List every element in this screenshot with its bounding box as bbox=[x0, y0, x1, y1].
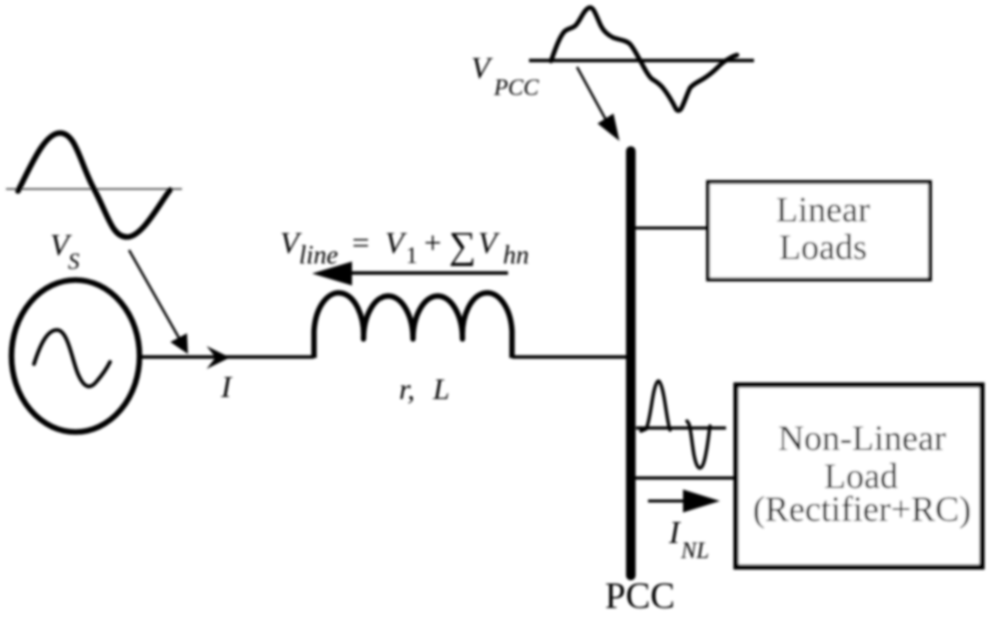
svg-text:S: S bbox=[68, 249, 80, 274]
nonlinear current waveform axis bbox=[636, 426, 726, 429]
svg-text:PCC: PCC bbox=[493, 75, 539, 100]
arrow from V_S waveform to wire bbox=[129, 250, 188, 354]
source sine waveform bbox=[18, 133, 170, 237]
wire bus to Non-Linear Load bbox=[634, 476, 737, 479]
arrow Vline pointing left bbox=[312, 262, 508, 286]
wire bus to Linear Loads bbox=[634, 227, 709, 230]
PCC distorted voltage waveform bbox=[551, 7, 737, 110]
Non-Linear Load box bbox=[736, 385, 982, 567]
svg-text:line: line bbox=[299, 241, 338, 270]
nonlinear current waveform bbox=[641, 381, 710, 468]
svg-text:(Rectifier+RC): (Rectifier+RC) bbox=[753, 489, 971, 529]
svg-text:V: V bbox=[471, 50, 493, 85]
PCC voltage waveform axis bbox=[529, 59, 754, 63]
svg-text:Loads: Loads bbox=[779, 227, 867, 267]
svg-text:∑: ∑ bbox=[449, 225, 476, 267]
Linear Loads box bbox=[708, 182, 930, 280]
source symbol sine bbox=[34, 330, 110, 386]
wire source to inductor bbox=[140, 355, 314, 359]
svg-text:V: V bbox=[478, 225, 500, 260]
PCC bus bar bbox=[626, 151, 636, 576]
current direction arrowhead I bbox=[207, 346, 231, 369]
svg-text:+: + bbox=[424, 225, 441, 260]
svg-text:Non-Linear: Non-Linear bbox=[778, 418, 946, 458]
svg-text:NL: NL bbox=[680, 538, 709, 563]
svg-text:I: I bbox=[220, 369, 233, 404]
svg-text:I: I bbox=[668, 514, 681, 550]
svg-text:PCC: PCC bbox=[605, 576, 675, 615]
svg-text:V: V bbox=[385, 225, 407, 260]
I_NL current arrow bbox=[648, 490, 720, 513]
arrow from V_PCC to bus bbox=[577, 67, 620, 141]
label Vline = V1 + sum Vhn bbox=[280, 225, 529, 270]
inductor r,L bbox=[314, 293, 512, 358]
wire inductor to PCC bus bbox=[512, 355, 631, 359]
source waveform axis bbox=[6, 188, 182, 190]
svg-text:=: = bbox=[352, 225, 369, 260]
svg-text:Linear: Linear bbox=[776, 190, 870, 230]
svg-text:hn: hn bbox=[503, 241, 529, 270]
svg-text:r,: r, bbox=[399, 373, 415, 406]
svg-text:1: 1 bbox=[406, 243, 418, 268]
AC source circle bbox=[12, 280, 140, 432]
svg-text:L: L bbox=[432, 373, 450, 406]
